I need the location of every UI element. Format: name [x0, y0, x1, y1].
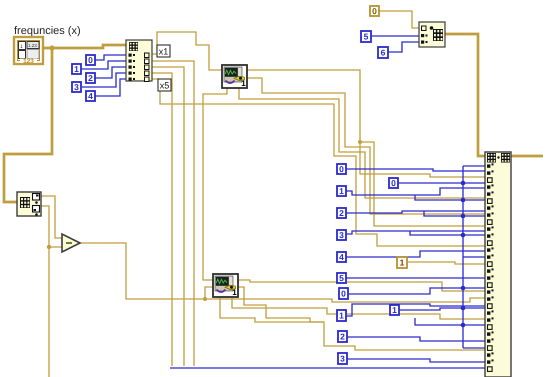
wire c0b: [398, 182, 463, 184]
svg-text:6: 6: [381, 48, 386, 58]
wire const 1 to index input 2: [82, 61, 126, 69]
svg-text:123: 123: [23, 58, 34, 65]
junction subVI1 out1 branch: [358, 140, 362, 144]
wire const 0 to index input 1: [94, 55, 126, 60]
blue junction y216: [461, 214, 466, 219]
svg-text:3: 3: [340, 354, 345, 364]
svg-text:4: 4: [88, 91, 93, 101]
blue junction y288: [461, 286, 466, 291]
wire c0 top: [346, 169, 488, 171]
wire output4 down: [152, 73, 172, 366]
svg-text:1: 1: [74, 64, 79, 74]
constant 3 low: [338, 353, 347, 364]
svg-text:0: 0: [391, 178, 396, 188]
wire c1: [346, 188, 488, 195]
constant 2 low: [338, 331, 347, 342]
svg-text:3: 3: [339, 230, 344, 240]
label x1: [157, 45, 170, 57]
svg-text:2: 2: [88, 73, 93, 83]
wire c2: [346, 211, 488, 213]
wire subVI1 bottom pin2 across: [239, 88, 488, 198]
constant 4: [86, 91, 95, 101]
constant 1 DBL mid: [397, 257, 407, 268]
blue junction y200: [461, 198, 466, 203]
blue bus stub y216: [463, 215, 488, 217]
wire const 5 to init array: [371, 35, 419, 37]
Array Max & Min node: [17, 192, 41, 216]
divide node: [62, 234, 80, 252]
wire subVI1 output1 right: [246, 70, 488, 177]
wire min branch down: [48, 247, 50, 377]
svg-text:2: 2: [339, 208, 344, 218]
svg-text:4: 4: [339, 252, 344, 262]
wire subVI2 bottom2: [232, 296, 488, 319]
constant 0: [86, 55, 95, 65]
svg-text:0: 0: [88, 55, 93, 65]
junction min wire: [47, 245, 51, 249]
wire output2 down: [152, 61, 194, 366]
constant 4 mid: [337, 252, 346, 262]
svg-text:1: 1: [20, 44, 23, 50]
svg-text:1: 1: [241, 79, 246, 88]
svg-text:x1: x1: [159, 47, 169, 57]
svg-text:1: 1: [339, 186, 344, 196]
constant 1 low: [337, 310, 346, 321]
svg-text:1: 1: [392, 305, 397, 315]
blue junction y183: [461, 181, 466, 186]
constant 3: [72, 82, 81, 92]
svg-text:2: 2: [340, 332, 345, 342]
constant 0 DBL: [370, 6, 379, 16]
blue bus stub y257: [463, 256, 488, 258]
wire subVI2 output right: [238, 287, 488, 350]
wire divide output to subVI2: [79, 243, 213, 299]
constant 6: [378, 47, 388, 58]
wire c3 branch to bus: [410, 231, 463, 235]
constant 0 low: [339, 288, 348, 299]
wire blue feed 216: [424, 211, 463, 216]
svg-text:1.23: 1.23: [28, 43, 37, 48]
constant 0 mid: [337, 164, 346, 174]
wire divide branch to Replace node: [205, 298, 488, 302]
blue junction y325: [461, 323, 466, 328]
wire subVI1 bottom pin1 to subVI2: [203, 88, 227, 280]
constant 5 mid: [337, 273, 346, 283]
constant 1: [72, 64, 81, 74]
wire init array output to Replace node: [445, 34, 485, 156]
Replace Array Subset node: [485, 152, 511, 377]
wire subVI1 out1 branch: [360, 142, 488, 226]
wire c4: [346, 251, 488, 257]
blue bus stub y325: [463, 324, 488, 326]
constant 0b: [389, 178, 398, 188]
blue bus vertical: [462, 166, 464, 348]
wire const 6 to init array: [387, 42, 419, 52]
blue bus stub y308: [463, 307, 488, 309]
svg-text:1: 1: [232, 288, 237, 297]
junction on array wire: [49, 45, 54, 50]
wire Replace node output: [511, 155, 543, 158]
wire subVI1 output2 right: [246, 78, 488, 214]
wire const 4 to index input 5: [94, 79, 126, 96]
blue bus stub y166: [463, 165, 488, 167]
wire c1L: [346, 304, 488, 316]
wire c1 orange: [407, 262, 488, 264]
svg-text:5: 5: [364, 32, 369, 42]
subVI 2 (waveform builder): [213, 274, 238, 297]
wire subVI2 output pin a: [238, 280, 488, 291]
svg-text:1: 1: [400, 258, 405, 268]
wire c3: [346, 231, 488, 234]
svg-text:x5: x5: [160, 81, 170, 91]
Initialize Array node: [419, 22, 445, 47]
wire subVI2 bottom1: [220, 296, 324, 322]
wire blue feed 200: [415, 195, 463, 200]
svg-text:5: 5: [339, 273, 344, 283]
blue bus stub y288: [463, 287, 488, 289]
blue bus stub y200: [463, 199, 488, 201]
wire array branch down-left to Array Max&Min: [4, 48, 52, 202]
wire output x1 to subVI1 input: [152, 32, 222, 70]
wire const 2 to index input 3: [94, 67, 126, 78]
wire c1Lb: [399, 308, 463, 310]
constant 2 mid: [337, 208, 346, 218]
wire c3L: [347, 359, 488, 362]
wire c0L: [348, 288, 463, 294]
wire output3 down: [152, 67, 184, 366]
svg-text:3: 3: [74, 82, 79, 92]
control terminal frequncies(x): [14, 37, 43, 65]
wire blue bottom long: [170, 367, 488, 369]
constant 1 mid: [337, 186, 346, 196]
blue bus stub y348: [463, 347, 488, 349]
wire blue feed 325: [415, 318, 463, 325]
blue junction y308: [461, 306, 466, 311]
blue bus stub y183: [463, 182, 488, 184]
svg-text:0: 0: [372, 6, 377, 16]
svg-text:0: 0: [341, 289, 346, 299]
Index Array node: [126, 40, 152, 82]
constant 3 mid: [337, 230, 346, 240]
wire const 3 to index input 4: [82, 73, 126, 87]
svg-text:frequncies (x): frequncies (x): [14, 25, 81, 37]
constant 5: [361, 31, 371, 42]
constant 2: [86, 73, 95, 83]
subVI 1 (waveform builder): [222, 65, 247, 88]
wire output x5 across: [152, 79, 488, 246]
wire min to divide: [41, 206, 62, 247]
blue bus stub y235: [463, 234, 488, 236]
svg-text:1: 1: [339, 311, 344, 321]
constant 1b low: [390, 305, 399, 315]
blue junction y235: [461, 233, 466, 238]
wire const 0 DBL to init array: [378, 11, 419, 28]
label x5: [158, 79, 171, 91]
junction divide wire: [203, 297, 207, 301]
wire c5: [346, 277, 488, 279]
svg-text:0: 0: [339, 164, 344, 174]
wire c2L: [347, 337, 488, 341]
wire array from frequncies(x) to Index Array: [42, 45, 126, 48]
wire max to divide: [41, 196, 62, 238]
